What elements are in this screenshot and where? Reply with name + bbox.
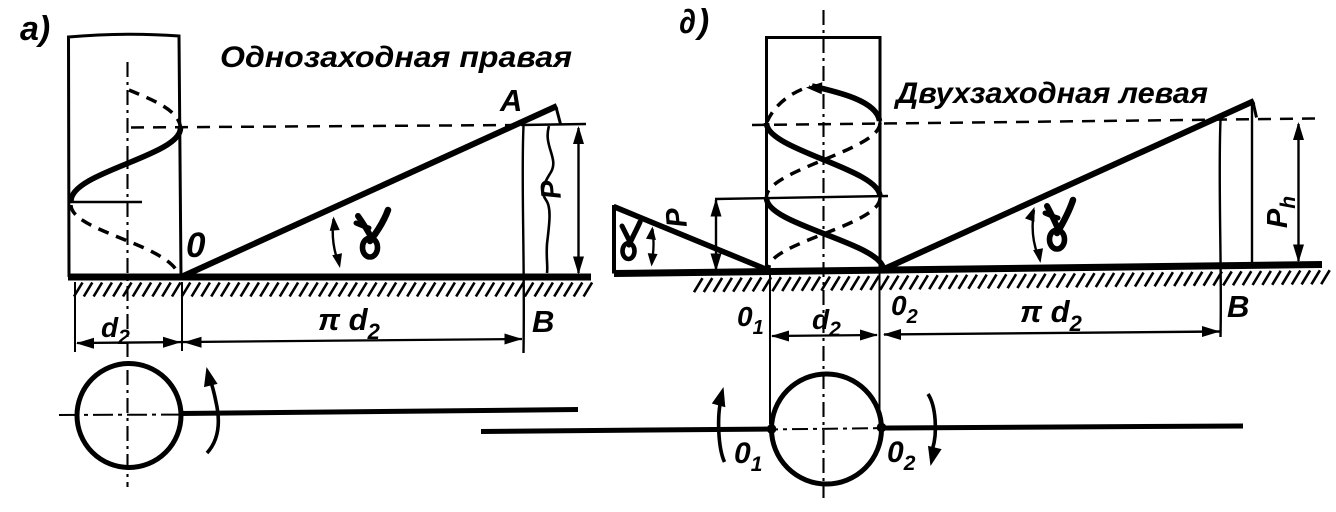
angle label gamma (fig a) (358, 216, 372, 239)
extension line at hypotenuse tip (fig b) (1251, 103, 1253, 264)
svg-text:π d2: π d2 (318, 302, 381, 344)
pitch development line left (fig b) (614, 207, 770, 271)
svg-text:π d2: π d2 (1020, 294, 1083, 336)
circle horizontal centerline (fig a) (59, 414, 200, 417)
arrowhead pi-d2 left (fig b) (883, 329, 901, 340)
arrowhead d2 right (163, 337, 181, 348)
cylinder body (fig b) (767, 38, 881, 273)
lead line dashed horizontal (fig b) (752, 119, 1317, 126)
cylinder body (fig a) (69, 34, 182, 277)
lead angle arc arrowhead down (fig b) (1033, 248, 1043, 263)
extension line A-B vertical (523, 126, 524, 353)
svg-text:Двухзаходная левая: Двухзаходная левая (893, 77, 1208, 110)
extension line d2 left (fig a) (74, 282, 76, 352)
helix front (solid, fig a) (71, 128, 181, 201)
extension line O2 down to circle (fig b) (879, 270, 881, 424)
cylinder axis centerline (fig a) (126, 62, 128, 487)
arrowhead P bottom (573, 257, 584, 275)
helix1 front lower (solid, fig b) (767, 198, 884, 270)
arrowhead Ph top (1293, 122, 1304, 140)
svg-text:02: 02 (891, 290, 918, 328)
unwrap line right (fig b) (881, 426, 1243, 428)
lead angle arc arrowhead up (fig b) (1025, 207, 1035, 222)
helix1 front top (solid, fig b) (812, 86, 880, 121)
extension line O1 down to circle (fig b) (769, 272, 771, 424)
arrowhead pi-d2 right (fig b) (1202, 326, 1220, 337)
left end bar (fig b) (612, 205, 616, 274)
lead angle arc (fig b) (1033, 210, 1040, 259)
svg-text:∂): ∂) (679, 3, 709, 41)
dimension line P (fig a) (577, 128, 579, 273)
helix2 back lower (dashed, fig b) (769, 198, 880, 268)
hatching below base (fig a) (74, 283, 592, 297)
arrowhead pi-d2 left (184, 337, 202, 348)
rotation arrow right (fig b) (928, 394, 935, 449)
extension line d2 right (fig a) (181, 282, 183, 351)
development hypotenuse O-A (fig a) (180, 106, 557, 278)
half-pitch level line (fig a) (68, 201, 142, 203)
hypotenuse end hook (fig b) (1253, 102, 1257, 118)
rotation arrowhead right (fig b) (928, 446, 942, 466)
dimension line d2 + pi d2 (fig a) (77, 339, 522, 343)
rotation arrow (fig a) (207, 377, 218, 453)
cylinder axis centerline (fig b) (822, 10, 824, 498)
circle horizontal centerline (fig b) (762, 428, 893, 430)
svg-text:Р: Р (660, 206, 694, 229)
base line (fig a) (68, 274, 591, 281)
angle label gamma (fig b) (1047, 206, 1059, 231)
base line (fig b) (614, 265, 1322, 274)
arrowhead Ph bottom (1293, 245, 1304, 263)
psi arc arrowhead up (646, 227, 656, 241)
svg-text:В: В (1227, 289, 1249, 324)
arrowhead P top (573, 126, 584, 144)
svg-text:Рh: Рh (1262, 196, 1300, 228)
dimension line Ph (fig b) (1297, 124, 1299, 261)
hatching below base (fig b) (694, 270, 1330, 292)
lead angle arc arrowhead down (332, 253, 342, 268)
svg-text:01: 01 (737, 301, 764, 339)
arrowhead P bottom (fig b) (711, 254, 722, 272)
dimension line d2 (fig b) (772, 335, 877, 336)
helix1 top direction arrowhead (806, 82, 822, 94)
arrowhead pi-d2 right (505, 334, 523, 345)
helix back lower (dashed, fig a) (71, 205, 177, 271)
helix2 back top (dashed, fig b) (767, 87, 810, 123)
dimension line pi d2 (fig b) (884, 332, 1220, 335)
svg-text:В: В (532, 304, 554, 339)
pitch level tick line (fig b) (715, 196, 888, 199)
wavy leader line at P (fig a) (543, 126, 553, 273)
svg-text:Однозаходная правая: Однозаходная правая (220, 41, 572, 74)
helix2 front (solid, fig b) (767, 123, 881, 197)
arrowhead d2 left (fig b) (771, 331, 789, 342)
unwrap tangent line (fig a) (180, 410, 578, 414)
svg-text:Р: Р (534, 179, 567, 201)
dimension line P (fig b) (715, 200, 717, 271)
helix1 back (dashed, fig b) (767, 123, 881, 197)
end-view circle (fig a) (77, 364, 181, 468)
tangent point dot O2 (877, 423, 887, 433)
extension line at B (fig b) (1220, 121, 1221, 338)
hypotenuse end hook (556, 107, 561, 124)
rotation arrowhead left (fig b) (712, 387, 726, 407)
rotation arrow left (fig b) (719, 400, 725, 462)
tangent point dot O1 (767, 424, 777, 434)
rotation arrowhead (fig a) (204, 367, 218, 387)
svg-text:01: 01 (734, 437, 762, 476)
development hypotenuse O2-B' (fig b) (883, 101, 1254, 270)
svg-text:02: 02 (887, 436, 916, 475)
lead angle arc (fig a) (333, 219, 339, 264)
unwrap line left (fig b) (481, 429, 772, 432)
pitch line solid continuation past A (521, 124, 586, 125)
angle label psi (fig b) (622, 226, 631, 244)
arrowhead d2 right (fig b) (860, 330, 878, 341)
svg-text:а): а) (20, 10, 50, 48)
svg-text:0: 0 (186, 226, 206, 265)
arrowhead d2 left (76, 338, 94, 349)
psi angle arc (fig b) (652, 229, 654, 263)
end-view circle (fig b) (772, 374, 882, 484)
svg-text:А: А (499, 83, 522, 118)
psi arc arrowhead down (648, 253, 658, 266)
helix back upper (dashed, fig a) (129, 90, 181, 127)
pitch line O-A dashed horizontal (fig a) (131, 125, 521, 128)
arrowhead P top (fig b) (711, 199, 722, 217)
lead angle arc arrowhead up (330, 217, 340, 231)
